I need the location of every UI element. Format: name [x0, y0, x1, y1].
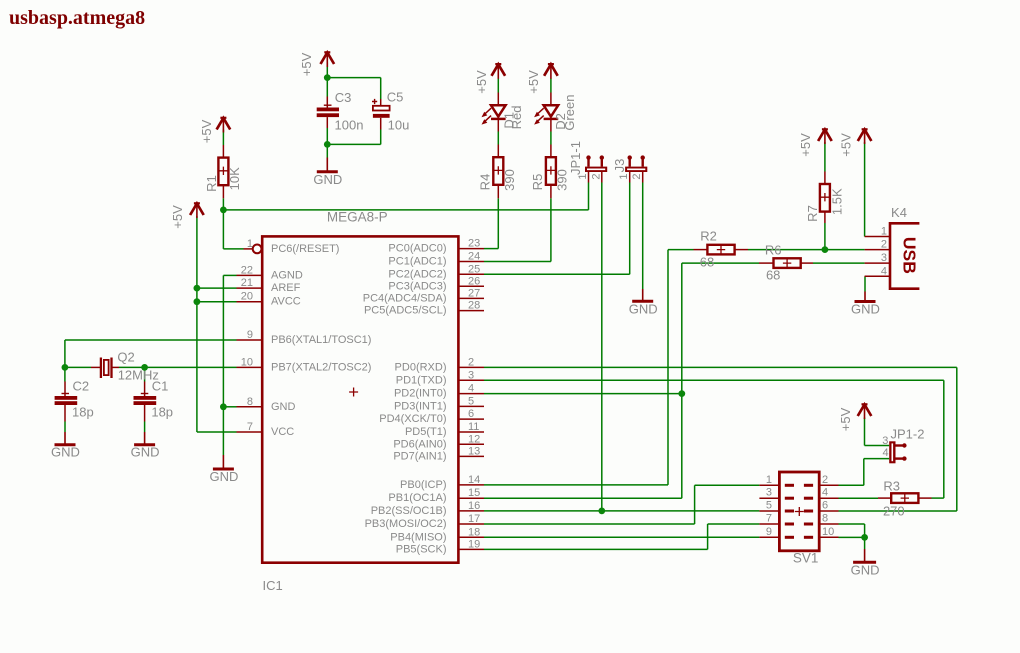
jumper JP1-1 body bar — [585, 167, 607, 172]
svg-text:PD6(AIN0): PD6(AIN0) — [393, 438, 446, 450]
pin 18 PB4(MISO) — [458, 526, 484, 538]
wire +5V junction to C5 top — [327, 77, 380, 79]
pin 23 PC0(ADC0) — [458, 238, 484, 250]
junction GND pin8 — [220, 403, 227, 410]
svg-text:GND: GND — [51, 445, 80, 460]
svg-text:+5V: +5V — [474, 70, 489, 94]
connector SV1 pin 2 — [819, 474, 839, 486]
svg-text:Red: Red — [509, 105, 524, 129]
power +5V symbol above C3 — [321, 52, 335, 67]
connector SV1 origin cross — [795, 507, 804, 516]
svg-text:10: 10 — [241, 356, 253, 368]
IC1 right pin name labels — [363, 243, 447, 556]
jumper J3 body bar — [625, 167, 647, 172]
pin 12 PD6(AIN0) — [458, 433, 484, 445]
capacitor C2 18p plates — [55, 396, 78, 400]
wire C2 node down to C2 — [64, 367, 66, 381]
svg-text:26: 26 — [468, 275, 480, 287]
wire SV1 pin10 to GND — [839, 536, 865, 538]
jumper JP1-2 posts — [896, 443, 907, 461]
svg-text:PD5(T1): PD5(T1) — [405, 426, 447, 438]
wire R5 bottom to IC pin24 PC1 — [550, 198, 552, 261]
jumper J3 posts — [628, 155, 645, 166]
connector SV1 body — [779, 472, 819, 551]
resistor R5 390 pins — [550, 145, 552, 158]
svg-text:19: 19 — [468, 538, 480, 550]
svg-text:+5V: +5V — [299, 52, 314, 76]
ground symbol GND under J3 — [632, 289, 653, 301]
pin 13 PD7(AIN1) — [458, 445, 484, 457]
resistor R1 10K pins — [222, 145, 224, 158]
wire +5V to R1 top — [222, 130, 224, 146]
LED D1 emission arrows — [482, 108, 492, 124]
svg-text:+5V: +5V — [170, 205, 185, 229]
wire R4 bottom to IC pin23 PC0 — [497, 198, 499, 248]
svg-text:23: 23 — [468, 238, 480, 250]
resistor R3 body — [891, 493, 918, 503]
svg-text:PC3(ADC3): PC3(ADC3) — [388, 280, 446, 292]
pin 21 AREF — [237, 277, 262, 289]
svg-text:+5V: +5V — [838, 407, 853, 431]
crystal Q2 body — [104, 360, 109, 375]
svg-text:7: 7 — [247, 421, 253, 433]
wire PD1 TXD net to R3 — [484, 379, 944, 381]
svg-text:PC0(ADC0): PC0(ADC0) — [388, 243, 446, 255]
svg-text:IC1: IC1 — [263, 578, 283, 593]
capacitor C5 10u plates — [373, 106, 390, 111]
svg-text:JP1-1: JP1-1 — [568, 141, 583, 175]
svg-text:25: 25 — [468, 263, 480, 275]
svg-text:16: 16 — [468, 500, 480, 512]
svg-text:14: 14 — [468, 474, 480, 486]
svg-text:GND: GND — [131, 445, 160, 460]
svg-text:1: 1 — [577, 173, 589, 179]
wire D2 cathode to R5 — [550, 132, 552, 145]
capacitor C3 polarity tick — [324, 104, 332, 106]
svg-text:2: 2 — [631, 173, 643, 179]
connector SV1 pin 10 — [819, 526, 839, 538]
wire PB2 net to SV1 pin5 — [484, 510, 759, 512]
svg-text:18: 18 — [468, 526, 480, 538]
wire C5 bottom to GND junction — [380, 130, 382, 145]
svg-text:4: 4 — [881, 265, 887, 277]
svg-text:C3: C3 — [335, 90, 352, 105]
capacitor C2 polarity tick — [62, 393, 70, 395]
svg-text:PD2(INT0): PD2(INT0) — [394, 388, 447, 400]
svg-text:1: 1 — [881, 226, 887, 238]
jumper J3 pin stubs — [629, 172, 631, 183]
svg-text:GND: GND — [313, 172, 342, 187]
wire PB4 MISO to SV1 pin9 — [484, 536, 759, 538]
svg-text:PD7(AIN1): PD7(AIN1) — [393, 450, 446, 462]
wire crystal right to C1 node — [119, 366, 145, 368]
connector K4 USB body — [890, 223, 919, 288]
ground symbol GND under C2 — [55, 432, 76, 445]
svg-text:+5V: +5V — [839, 133, 854, 157]
wire RESET net horizontal to JP1-1 pin1 — [223, 209, 588, 211]
connector SV1 pin 3 — [759, 487, 779, 499]
svg-text:18p: 18p — [151, 405, 173, 420]
pin 11 PD5(T1) — [458, 421, 484, 433]
resistor R4 390 pins — [497, 145, 499, 158]
svg-text:PB0(ICP): PB0(ICP) — [400, 479, 446, 491]
ground symbol GND under C1 — [134, 432, 155, 445]
connector K4 pin 3 — [865, 252, 890, 264]
svg-text:68: 68 — [766, 268, 780, 283]
pin 17 PB3(MOSI/OC2) — [458, 513, 484, 525]
svg-text:1: 1 — [766, 474, 772, 486]
svg-text:10K: 10K — [227, 167, 242, 190]
resistor R6 68 pins — [759, 262, 774, 264]
junction XTAL1/C2 — [62, 364, 69, 371]
svg-text:12: 12 — [468, 433, 480, 445]
wire +5V left rail down to VCC — [196, 216, 198, 432]
ground symbol GND under SV1 — [853, 549, 876, 562]
svg-text:8: 8 — [247, 396, 253, 408]
power +5V symbol above D2 — [544, 64, 558, 79]
pin 9 PB6(XTAL1/TOSC1) — [237, 329, 262, 341]
pin 10 PB7(XTAL2/TOSC2) — [237, 356, 262, 368]
pin 5 PD3(INT1) — [458, 395, 484, 407]
wire SV1 pin8 to GND junction — [839, 523, 865, 525]
svg-text:390: 390 — [502, 169, 517, 191]
svg-text:R4: R4 — [478, 174, 493, 191]
svg-text:R1: R1 — [204, 175, 219, 192]
wire C2 bottom to GND — [64, 422, 66, 433]
pin 4 PD2(INT0) — [458, 383, 484, 395]
svg-text:PB4(MISO): PB4(MISO) — [390, 531, 446, 543]
capacitor C1 18p plates — [134, 396, 157, 400]
junction PD2/R6 — [678, 390, 685, 397]
svg-text:11: 11 — [468, 421, 479, 433]
pin 1 PC6(/RESET) — [244, 238, 262, 253]
pin 16 PB2(SS/OC1B) — [458, 500, 484, 512]
resistor R5 body — [546, 157, 556, 185]
LED D2 Green triangle — [544, 105, 559, 116]
svg-text:3: 3 — [766, 487, 772, 499]
pin 2 PD0(RXD) — [458, 356, 484, 368]
capacitor C2 pins — [64, 382, 66, 397]
pin 15 PB1(OC1A) — [458, 487, 484, 499]
svg-text:GND: GND — [851, 302, 880, 317]
svg-text:270: 270 — [883, 503, 905, 518]
svg-text:2: 2 — [881, 239, 887, 251]
crystal Q2 12MHz plates — [100, 358, 102, 379]
wire +5V to D2 anode — [550, 79, 552, 93]
connector SV1 pin 9 — [759, 526, 779, 538]
pin 24 PC1(ADC1) — [458, 251, 484, 263]
svg-text:PB3(MOSI/OC2): PB3(MOSI/OC2) — [365, 518, 447, 530]
svg-text:PB6(XTAL1/TOSC1): PB6(XTAL1/TOSC1) — [271, 334, 371, 346]
resistor R6 body — [774, 258, 801, 268]
wire RESET junction down to IC pin1 — [222, 210, 224, 249]
wire PD0 RXD net to far right — [484, 366, 957, 368]
wire C2 node to crystal left — [65, 366, 91, 368]
connector SV1 pin 6 — [819, 500, 839, 512]
jumper JP1-1 pin stubs — [588, 172, 590, 183]
svg-text:USB: USB — [900, 237, 920, 274]
wire C1 node down to C1 — [144, 367, 146, 381]
capacitor C5 pins — [380, 99, 382, 106]
svg-text:1: 1 — [618, 173, 630, 179]
resistor R2 body — [707, 245, 734, 255]
svg-text:3: 3 — [881, 252, 887, 264]
pin 6 PD4(XCK/T0) — [458, 408, 484, 420]
connector SV1 pin 4 — [819, 487, 839, 499]
svg-text:28: 28 — [468, 300, 480, 312]
svg-text:GND: GND — [209, 469, 238, 484]
ground symbol GND under C3 — [317, 158, 338, 172]
svg-text:24: 24 — [468, 251, 480, 263]
pin 26 PC3(ADC3) — [458, 275, 484, 287]
pin 3 PD1(TXD) — [458, 369, 484, 381]
connector SV1 pin 1 — [759, 474, 779, 486]
pin 8 GND — [237, 396, 262, 408]
wire R2 left to PB0 — [668, 249, 694, 251]
capacitor C3 pins — [326, 97, 328, 108]
wire R6 vertical to PD2/PB1 — [681, 263, 683, 498]
svg-text:20: 20 — [241, 291, 253, 303]
junction SV1 GND — [861, 534, 868, 541]
svg-text:PD3(INT1): PD3(INT1) — [394, 400, 447, 412]
connector SV1 pin 5 — [759, 500, 779, 512]
wire PB1 to R6 vertical — [484, 497, 682, 499]
svg-text:C2: C2 — [72, 379, 89, 394]
wire USB pin4 to GND — [864, 276, 866, 291]
pin 27 PC4(ADC4/SDA) — [458, 287, 484, 299]
wire GND tap to IC pin8 — [223, 406, 236, 408]
svg-text:6: 6 — [468, 408, 474, 420]
svg-text:+5V: +5V — [798, 133, 813, 157]
svg-text:PD0(RXD): PD0(RXD) — [395, 361, 447, 373]
svg-text:9: 9 — [766, 526, 772, 538]
svg-text:10u: 10u — [388, 117, 410, 132]
svg-text:R7: R7 — [805, 205, 820, 222]
wire +5V to R7 — [824, 142, 826, 172]
wire +5V to USB pin1 — [864, 142, 866, 237]
wire AREF tap — [197, 287, 237, 289]
svg-text:PC4(ADC4/SDA): PC4(ADC4/SDA) — [363, 292, 447, 304]
svg-text:27: 27 — [468, 287, 480, 299]
wire R1 bottom to RESET junction — [222, 198, 224, 210]
wire R2 right to USB pin2 — [748, 249, 865, 251]
wire +5V to D1 anode — [497, 79, 499, 93]
power +5V symbol left rail — [190, 203, 204, 218]
svg-text:MEGA8-P: MEGA8-P — [327, 210, 388, 225]
ic IC1 origin cross — [349, 388, 358, 397]
capacitor C1 pins — [144, 382, 146, 397]
connector K4 pin 4 — [865, 265, 890, 277]
power +5V symbol above K4 — [858, 129, 872, 144]
svg-text:+5V: +5V — [199, 119, 214, 143]
wire JP1-1 pin2 down to PB2 net — [601, 183, 603, 511]
junction XTAL2/C1 — [141, 364, 148, 371]
wire SV1 pin4 to R3 left — [839, 497, 879, 499]
junction AREF — [194, 285, 201, 292]
LED D2 emission arrows — [534, 108, 544, 124]
svg-text:C5: C5 — [387, 89, 404, 104]
LED D1 Red triangle — [491, 105, 506, 116]
svg-text:4: 4 — [883, 447, 889, 459]
svg-text:9: 9 — [247, 329, 253, 341]
svg-text:R6: R6 — [765, 243, 782, 258]
svg-text:Q2: Q2 — [117, 350, 134, 365]
svg-text:6: 6 — [822, 500, 828, 512]
wire +5V to C3 top junction — [326, 63, 328, 78]
svg-text:12MHz: 12MHz — [118, 368, 159, 383]
svg-text:8: 8 — [822, 513, 828, 525]
wire JP1-1 pin1 vertical — [588, 183, 590, 210]
svg-text:+5V: +5V — [526, 70, 541, 94]
wire AVCC tap — [197, 301, 237, 303]
svg-text:R3: R3 — [883, 479, 900, 494]
svg-text:PB2(SS/OC1B): PB2(SS/OC1B) — [371, 505, 447, 517]
svg-text:18p: 18p — [72, 405, 94, 420]
svg-text:2: 2 — [468, 356, 474, 368]
svg-text:4: 4 — [468, 383, 474, 395]
svg-text:2: 2 — [590, 173, 602, 179]
svg-text:5: 5 — [766, 500, 772, 512]
junction AVCC — [194, 298, 201, 305]
svg-text:PC6(/RESET): PC6(/RESET) — [271, 243, 339, 255]
svg-text:PC1(ADC1): PC1(ADC1) — [388, 256, 446, 268]
svg-text:22: 22 — [241, 264, 253, 276]
wire JP1-2 pin4 to SV1 pin2 — [864, 458, 889, 460]
svg-text:VCC: VCC — [271, 426, 294, 438]
resistor R1 body — [218, 158, 228, 186]
ic IC1 MEGA8-P body — [262, 236, 458, 562]
pin 14 PB0(ICP) — [458, 474, 484, 486]
svg-text:PB7(XTAL2/TOSC2): PB7(XTAL2/TOSC2) — [271, 361, 371, 373]
LED D2 cathode bar — [544, 118, 559, 121]
svg-text:PC5(ADC5/SCL): PC5(ADC5/SCL) — [364, 305, 447, 317]
pin 7 VCC — [237, 421, 262, 433]
pin 20 AVCC — [237, 291, 262, 303]
svg-text:K4: K4 — [891, 205, 907, 220]
resistor R3 270 pins — [878, 497, 891, 499]
svg-text:10: 10 — [822, 526, 834, 538]
wire C3 top junction to C3 — [326, 78, 328, 97]
svg-text:PD1(TXD): PD1(TXD) — [396, 374, 447, 386]
junction R7/USB D- — [822, 246, 829, 253]
connector SV1 pin 8 — [819, 513, 839, 525]
ground symbol GND analog rail — [213, 455, 234, 469]
capacitor C5 polarity plus — [372, 99, 377, 104]
jumper JP1-1 posts — [586, 155, 604, 166]
power +5V symbol above D1 — [492, 64, 506, 79]
svg-text:2: 2 — [822, 474, 828, 486]
svg-text:R2: R2 — [700, 229, 717, 244]
power +5V symbol above JP1-2 — [858, 404, 872, 419]
wire PB3 MOSI to SV1 pin1 — [484, 523, 695, 525]
svg-text:SV1: SV1 — [793, 551, 819, 566]
svg-text:3: 3 — [468, 369, 474, 381]
svg-text:1: 1 — [247, 238, 253, 250]
resistor R2 68 pins — [694, 249, 708, 251]
pin 22 AGND — [237, 264, 262, 276]
resistor R7 1.5K pins — [824, 172, 826, 185]
pin 28 PC5(ADC5/SCL) — [458, 300, 484, 312]
LED D1 cathode bar — [491, 118, 506, 121]
svg-text:68: 68 — [700, 255, 714, 270]
wire AGND vertical rail to GND — [222, 275, 224, 455]
svg-text:JP1-2: JP1-2 — [891, 427, 925, 442]
wire C1 bottom to GND — [144, 422, 146, 433]
capacitor C1 polarity tick — [141, 393, 149, 395]
pin 25 PC2(ADC2) — [458, 263, 484, 275]
svg-text:GND: GND — [629, 301, 658, 316]
junction JP1-1/PB2 — [598, 508, 605, 515]
wire R6 left — [682, 262, 759, 264]
svg-text:PB1(OC1A): PB1(OC1A) — [388, 492, 446, 504]
svg-text:PB5(SCK): PB5(SCK) — [396, 543, 447, 555]
svg-text:1.5K: 1.5K — [830, 188, 845, 215]
LED D2 pins — [550, 93, 552, 106]
connector K4 pin 1 — [865, 226, 890, 238]
power +5V symbol above R1 — [217, 118, 231, 133]
svg-text:15: 15 — [468, 487, 480, 499]
svg-text:17: 17 — [468, 513, 480, 525]
wire J3 pin2 to GND — [642, 183, 644, 290]
IC1 left pin name labels — [271, 243, 371, 438]
junction GND C3/C5 — [324, 141, 331, 148]
wire D1 cathode to R4 — [497, 132, 499, 145]
svg-text:usbasp.atmega8: usbasp.atmega8 — [9, 7, 145, 29]
junction RESET/R1 — [220, 207, 227, 214]
resistor R7 body — [820, 184, 830, 212]
svg-text:AREF: AREF — [271, 282, 301, 294]
jumper JP1-2 body bar — [889, 441, 895, 463]
wire AGND tap to IC pin22 — [223, 274, 236, 276]
crystal Q2 pins — [91, 366, 100, 368]
wire C3 bottom to GND junction — [326, 128, 328, 158]
wire R6 right to USB pin3 — [813, 262, 865, 264]
svg-text:3: 3 — [882, 435, 888, 447]
svg-text:100n: 100n — [335, 118, 364, 133]
junction +5V C3/C5 — [324, 74, 331, 81]
svg-text:7: 7 — [766, 513, 772, 525]
svg-text:GND: GND — [271, 401, 296, 413]
connector SV1 pin 7 — [759, 513, 779, 525]
pin 19 PB5(SCK) — [458, 538, 484, 550]
svg-text:J3: J3 — [612, 159, 627, 173]
resistor R4 body — [493, 157, 503, 185]
svg-text:21: 21 — [241, 277, 253, 289]
capacitor C3 100n plates — [317, 108, 339, 112]
svg-text:PC2(ADC2): PC2(ADC2) — [388, 268, 446, 280]
wire PC2 net to J3 pin1 — [484, 273, 630, 275]
wire PB5 SCK to SV1 pin7 — [484, 548, 708, 550]
wire PD2 INT0 net — [484, 393, 682, 395]
svg-text:Green: Green — [562, 95, 577, 131]
svg-text:GND: GND — [851, 562, 880, 577]
LED D1 pins — [497, 93, 499, 106]
svg-text:PD4(XCK/T0): PD4(XCK/T0) — [379, 413, 446, 425]
wire +5V to JP1-2 pin3 — [864, 418, 866, 446]
wire R7 bottom to USB pin2 net — [824, 223, 826, 250]
ground symbol GND under K4 — [855, 292, 876, 302]
svg-text:AGND: AGND — [271, 269, 303, 281]
svg-text:AVCC: AVCC — [271, 296, 301, 308]
svg-text:4: 4 — [822, 487, 828, 499]
connector SV1 contact bars — [785, 484, 813, 539]
wire XTAL1 net: C2 node up and right to IC pin9 — [64, 340, 66, 367]
svg-text:R5: R5 — [530, 174, 545, 191]
svg-text:13: 13 — [468, 445, 480, 457]
power +5V symbol above R7 — [818, 129, 832, 144]
svg-text:5: 5 — [468, 395, 474, 407]
connector K4 pin 2 — [865, 239, 890, 251]
